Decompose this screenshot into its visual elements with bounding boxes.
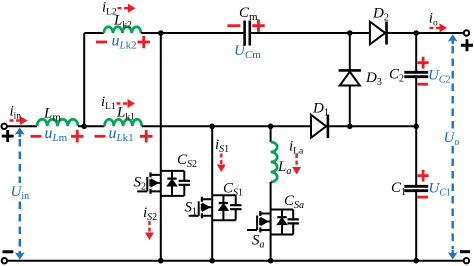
polarity minus u_Lm [31, 135, 42, 138]
svg-text:CS2: CS2 [177, 152, 197, 170]
polarity minus C2 [418, 83, 429, 86]
svg-text:UC1: UC1 [429, 181, 452, 199]
svg-text:Lm: Lm [43, 106, 61, 124]
svg-text:io: io [429, 11, 438, 29]
capacitor C2 [404, 72, 428, 76]
arrow i_S2 [148, 221, 150, 232]
svg-text:Cm: Cm [239, 5, 258, 23]
voltage arrow U_o [452, 38, 454, 256]
svg-text:CSa: CSa [284, 193, 304, 211]
inductor Lk2 [104, 27, 141, 33]
wire top branch left segment [84, 32, 104, 34]
input plus [2, 130, 14, 142]
diode D1 [311, 115, 326, 138]
inductor La [271, 142, 278, 182]
svg-text:uLk2: uLk2 [112, 33, 137, 52]
transistor S2 [137, 171, 190, 196]
node La top [268, 124, 274, 130]
svg-text:Lk2: Lk2 [113, 13, 132, 31]
transistor Sa [247, 210, 299, 235]
input + terminal [1, 124, 6, 129]
wire main rail input to Lm [7, 125, 37, 127]
node D3 top [347, 30, 353, 36]
inductor Lm [37, 119, 78, 126]
arrow i_o [430, 27, 441, 29]
wire top branch Lk2 to Cm [141, 32, 244, 34]
svg-text:C2: C2 [389, 67, 404, 85]
svg-text:iL1: iL1 [101, 94, 116, 112]
svg-text:uLk1: uLk1 [109, 125, 134, 144]
svg-text:D2: D2 [372, 6, 389, 24]
arrow i_L1 [117, 102, 129, 104]
wire D3 branch lower [349, 86, 351, 127]
node D2 out [413, 30, 419, 36]
wire C1 to bottom rail [415, 192, 417, 261]
wire S2 branch [160, 33, 162, 261]
capacitor Cm [245, 21, 250, 46]
polarity minus Cm [227, 24, 240, 27]
label backings [9, 183, 31, 200]
output plus [461, 39, 473, 51]
svg-text:Sa: Sa [252, 233, 265, 251]
arrow i_La [295, 154, 297, 167]
node winding junction [81, 124, 87, 130]
capacitor C1 [404, 186, 428, 190]
wire vertical link winding node [83, 33, 85, 126]
polarity minus u_Lk2 [96, 41, 107, 44]
wire top branch D2 to output terminal [388, 32, 465, 34]
node C1 bottom [413, 258, 419, 264]
polarity plus u_Lk2 [138, 36, 151, 49]
node D3 bottom [347, 124, 353, 130]
svg-text:uLm: uLm [45, 125, 68, 144]
svg-text:UCm: UCm [234, 43, 261, 61]
node S2 bottom [158, 258, 164, 264]
wire main rail Lm to Lk1 [78, 125, 105, 127]
arrow i_S1 [220, 154, 222, 165]
wire main rail Lk1 to D1 [142, 125, 311, 127]
arrow i_in [10, 119, 21, 121]
input - terminal [2, 258, 7, 263]
svg-text:D1: D1 [312, 101, 329, 119]
svg-text:iin: iin [10, 104, 22, 122]
polarity plus u_Lm [71, 130, 84, 143]
svg-text:Lk1: Lk1 [116, 105, 135, 123]
svg-text:S2: S2 [134, 175, 147, 193]
polarity minus u_Lk1 [95, 135, 106, 138]
wire C2 branch upper [415, 33, 417, 71]
wire S1 branch [211, 126, 213, 260]
wire D3 branch upper [349, 33, 351, 71]
svg-text:iS1: iS1 [215, 137, 229, 155]
svg-text:iS2: iS2 [143, 205, 157, 223]
wire La branch upper [270, 126, 272, 142]
wire bottom rail [7, 260, 464, 262]
diode D2 [370, 22, 385, 45]
svg-text:C1: C1 [391, 180, 406, 198]
node C2 bottom [413, 124, 419, 130]
svg-text:UC2: UC2 [428, 68, 451, 86]
wire top branch Cm to D2 [251, 32, 370, 34]
node S2 top [158, 30, 164, 36]
svg-text:La: La [277, 159, 291, 177]
node Sa bottom [268, 258, 274, 264]
polarity plus C2 [418, 57, 429, 69]
wire C2 to main rail to C1 [415, 78, 417, 185]
wire main rail D1 to C branch [329, 125, 416, 127]
transistor S1 [189, 195, 242, 220]
inductor Lk1 [105, 119, 142, 126]
output + terminal [464, 30, 469, 35]
input minus [3, 250, 14, 253]
polarity plus u_Lk1 [140, 130, 153, 143]
output - terminal [464, 258, 469, 263]
wire La to Sa and bottom [270, 182, 272, 261]
svg-text:iLa: iLa [289, 139, 304, 157]
voltage arrow U_in [19, 131, 21, 257]
polarity plus C1 [418, 170, 429, 182]
polarity plus Cm [252, 19, 265, 32]
svg-text:S1: S1 [185, 200, 198, 218]
arrow i_L2 [118, 7, 129, 9]
diode D3 [340, 72, 360, 86]
svg-text:D3: D3 [365, 70, 382, 88]
svg-text:CS1: CS1 [223, 181, 243, 199]
node S1 bottom [209, 258, 215, 264]
output minus [460, 250, 470, 253]
polarity minus C1 [418, 196, 429, 199]
node S1 top [209, 124, 215, 130]
